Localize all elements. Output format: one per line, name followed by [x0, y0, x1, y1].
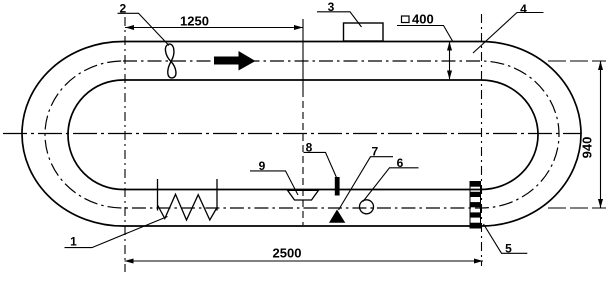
svg-text:400: 400	[412, 12, 434, 27]
dimension 940 line	[598, 61, 603, 208]
dimension 1250 line	[125, 25, 303, 30]
component 5 striped bar (screen)	[470, 182, 481, 229]
label 5 leader	[484, 224, 528, 253]
section line x=303 solid through top duct	[302, 19, 304, 90]
component 8 black bar (probe)	[335, 177, 340, 196]
component 6 circle	[360, 200, 374, 214]
dimension 400 leader	[397, 26, 453, 42]
svg-text:2500: 2500	[273, 246, 302, 261]
svg-text:1250: 1250	[180, 14, 209, 29]
component 7 filled triangle	[329, 210, 345, 223]
heater 1 zigzag element	[158, 194, 218, 220]
vertical axis right (x=481.5, dash-dot)	[481, 14, 483, 266]
label 2 leader	[118, 13, 170, 45]
fan 2 (figure-eight propeller symbol)	[165, 44, 176, 78]
section line x=303 dashed lower part	[302, 90, 304, 225]
vertical axis left (x=125, dash-dot)	[124, 17, 126, 272]
horizontal main axis (dash-dot)	[3, 133, 581, 135]
label 3 leader	[317, 12, 362, 27]
duct inner wall (stadium outline)	[68, 80, 538, 190]
dimension 940 extension line bottom	[548, 207, 606, 209]
component 3 box on top duct	[344, 23, 384, 41]
dimension 2500 line	[125, 259, 484, 264]
heater 1 right end wire	[216, 179, 218, 211]
label 9 leader	[250, 171, 298, 195]
svg-text:1: 1	[70, 235, 77, 249]
duct centerline (dash-dot stadium)	[45, 61, 559, 208]
dimension 940 extension line top	[548, 60, 606, 62]
heater 1 left end wire	[157, 179, 159, 211]
label 1 leader	[65, 217, 168, 248]
component 9 trapezoid (nozzle)	[288, 190, 319, 200]
label 4 leader	[473, 13, 544, 54]
label 6 leader	[363, 168, 419, 202]
svg-text:940: 940	[580, 137, 595, 159]
svg-text:4: 4	[520, 2, 527, 16]
dimension 400 double arrow	[447, 42, 452, 80]
flow direction arrow (solid)	[214, 51, 256, 71]
label 8 leader	[304, 152, 337, 177]
dimension 400 square symbol	[402, 16, 410, 23]
label 7 leader	[339, 157, 394, 210]
duct outer wall (stadium outline)	[22, 42, 581, 227]
